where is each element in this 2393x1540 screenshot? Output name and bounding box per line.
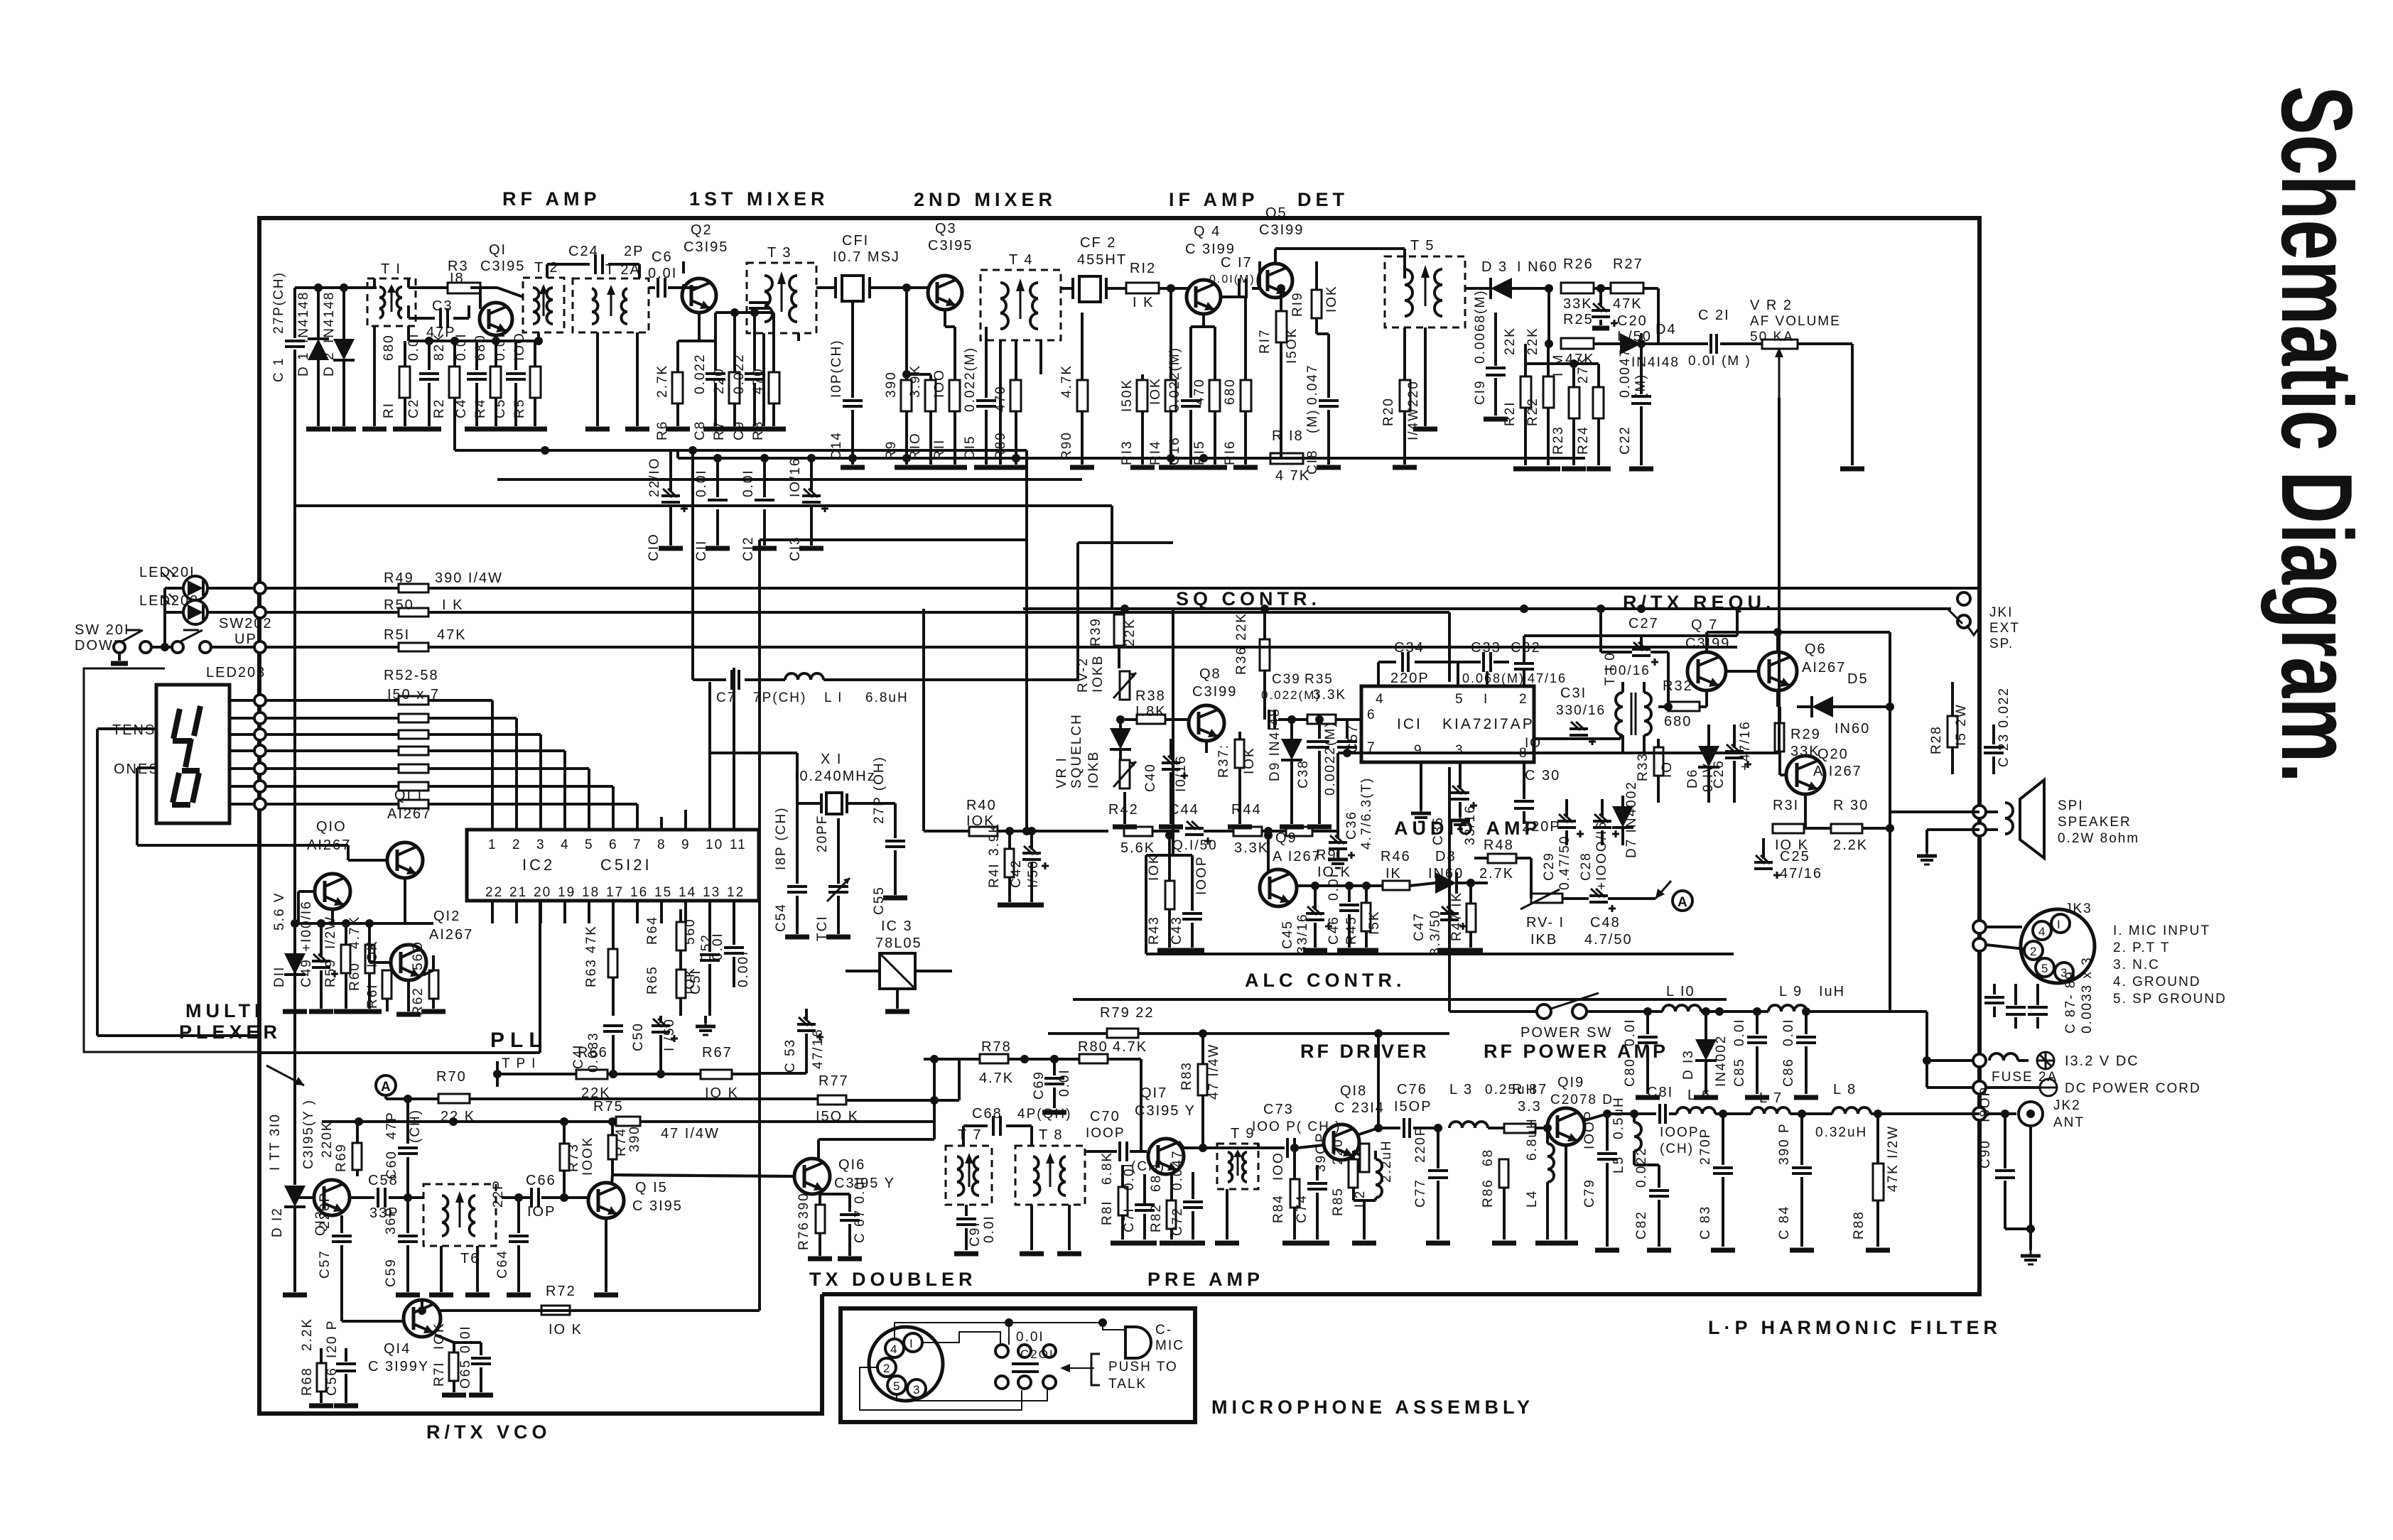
node R85 value	[1331, 1138, 1346, 1165]
svg-text:22: 22	[485, 885, 503, 900]
svg-text:4: 4	[1376, 692, 1385, 707]
diode D7 1N4002	[1612, 781, 1639, 858]
node R26 value	[1563, 296, 1643, 312]
capacitor C48 4.7/50	[1584, 889, 1655, 948]
svg-text:R44: R44	[1231, 802, 1262, 818]
svg-text:JK2: JK2	[2053, 1098, 2081, 1113]
transistor Q15 C3195	[588, 1175, 683, 1218]
resistor R87 3.3	[1504, 1082, 1547, 1133]
svg-text:6: 6	[609, 837, 618, 852]
node R41 labels	[987, 823, 1002, 888]
capacitor C69 0.01	[1042, 1055, 1066, 1112]
svg-text:MIC: MIC	[1155, 1338, 1184, 1353]
svg-text:I00/16: I00/16	[1604, 663, 1651, 678]
wire vco out	[502, 1196, 530, 1199]
svg-text:27P (OH): 27P (OH)	[872, 756, 887, 824]
node PTT arrow	[1060, 1364, 1094, 1372]
diode D10 IN60	[1110, 715, 1131, 760]
svg-text:C45: C45	[1280, 920, 1295, 949]
svg-text:47P: 47P	[426, 325, 456, 340]
capacitor C91 0.01 under T7	[954, 1205, 997, 1254]
node TP1	[493, 1056, 536, 1087]
resistor R74 390	[608, 1122, 642, 1175]
resistor R88 47K 1/2W	[1852, 1110, 1901, 1250]
crystal CF2 455HT	[1061, 235, 1127, 302]
svg-text:220: 220	[712, 367, 727, 394]
svg-text:9: 9	[681, 837, 691, 852]
svg-text:330/16: 330/16	[1556, 703, 1606, 718]
svg-text:I/50: I/50	[1026, 860, 1041, 888]
wire q16 coll2	[0, 0, 1, 1]
wire mic cap top	[0, 0, 1, 1]
wire q2 base riser	[682, 261, 685, 273]
capacitor C44 0.1/50	[1172, 821, 1233, 853]
transistor Q1 C3195	[480, 242, 525, 341]
svg-text:8: 8	[657, 837, 666, 852]
trimmer TC1 20PF	[0, 0, 1, 1]
svg-text:I8OP: I8OP	[1978, 1086, 1993, 1122]
resistor R83 47 1/4W	[1179, 1034, 1258, 1152]
resistor R65 10K	[645, 909, 698, 1016]
wire q17 emitter	[0, 0, 1, 1]
svg-text:C49: C49	[299, 958, 314, 987]
capacitor C10 22/10	[647, 450, 688, 561]
node MICROPHONE ASSEMBLY label	[1211, 1397, 1534, 1418]
inductor L4 6.8uH	[1525, 1124, 1560, 1243]
resistor R17 150K	[1258, 284, 1300, 458]
wire mic netz	[860, 1367, 1022, 1410]
svg-text:C4: C4	[454, 398, 469, 418]
svg-text:IOK: IOK	[1242, 747, 1257, 774]
svg-text:L 9: L 9	[1779, 984, 1803, 999]
svg-text:+IOOO/I6: +IOOO/I6	[1594, 820, 1609, 890]
capacitor C3 47P	[409, 298, 469, 340]
diode D11 5.6V zener	[272, 892, 307, 1012]
capacitor C59 36P(CH)	[384, 1198, 420, 1295]
transistor Q20 A1267	[1786, 756, 1825, 794]
svg-text:R38: R38	[1135, 688, 1166, 704]
capacitor C46 0.01	[0, 0, 1, 1]
capacitor C46 0.01	[1327, 872, 1361, 950]
svg-text:0.0I (M ): 0.0I (M )	[1688, 354, 1751, 369]
svg-text:AI267: AI267	[429, 927, 473, 943]
svg-text:L 7: L 7	[1759, 1090, 1783, 1106]
svg-text:R2I: R2I	[1503, 401, 1518, 426]
wire vert C1	[0, 0, 1, 1]
wire r83 column	[0, 0, 1, 1]
svg-text:I: I	[1484, 692, 1489, 707]
diode D1 1N4148	[296, 288, 330, 429]
wire r79 right	[1138, 1029, 1449, 1128]
wire sq bus	[0, 0, 1, 1]
svg-text:C47: C47	[1412, 912, 1427, 941]
svg-text:VR I: VR I	[1054, 757, 1069, 788]
node R52-58 label	[384, 668, 440, 703]
svg-text:I.8K: I.8K	[1135, 704, 1167, 720]
wire 1540 rail	[0, 0, 1, 1]
svg-text:Q I5: Q I5	[635, 1180, 668, 1195]
capacitor C27 100/16	[1628, 616, 1659, 631]
capacitor C90 180P final	[1978, 1086, 2041, 1264]
svg-text:C 84: C 84	[1777, 1205, 1792, 1240]
wire riser rv2	[0, 0, 1, 1]
svg-text:I5 2W: I5 2W	[1954, 703, 1969, 746]
resistor R4 680	[473, 334, 508, 429]
wire ptt wires	[0, 0, 1, 1]
node D10 labels	[0, 0, 1, 1]
svg-text:IOO: IOO	[512, 332, 527, 361]
svg-text:2.2K: 2.2K	[300, 1318, 315, 1351]
capacitor C22 0.0047(M)	[1618, 340, 1653, 469]
svg-text:C22: C22	[1618, 425, 1633, 455]
capacitor C11 0.01	[694, 454, 730, 561]
node C90 value	[0, 0, 1, 1]
transistor Q7 C3199	[1687, 617, 1726, 690]
svg-text:D 3: D 3	[1481, 259, 1508, 275]
wire bus y712	[295, 506, 1112, 609]
svg-text:C 53: C 53	[783, 1039, 798, 1073]
svg-text:C20: C20	[1617, 313, 1648, 329]
ic IC2 C5121	[467, 830, 759, 901]
wire Q2 emitter rail	[678, 308, 774, 341]
svg-text:0.32uH: 0.32uH	[1815, 1125, 1867, 1140]
resistor R2 82K	[432, 332, 460, 450]
capacitor C34 220P	[1378, 640, 1458, 686]
svg-text:2.2uH: 2.2uH	[1379, 1139, 1394, 1183]
node TX DOUBLER label	[809, 1269, 977, 1290]
svg-text:5: 5	[893, 1379, 901, 1393]
svg-text:47K: 47K	[437, 627, 467, 643]
svg-text:390 I/4W: 390 I/4W	[435, 570, 503, 586]
svg-text:C54: C54	[774, 903, 789, 932]
svg-text:SQ CONTR.: SQ CONTR.	[1176, 588, 1321, 609]
svg-text:C-: C-	[1155, 1323, 1172, 1338]
svg-text:R72: R72	[546, 1284, 576, 1299]
svg-text:C28: C28	[1579, 852, 1594, 881]
svg-text:PRE AMP: PRE AMP	[1147, 1269, 1264, 1290]
svg-text:47/16: 47/16	[1528, 671, 1567, 685]
svg-text:ALC CONTR.: ALC CONTR.	[1245, 970, 1405, 991]
node D13 value	[1714, 1035, 1729, 1087]
svg-text:R24: R24	[1576, 425, 1591, 455]
svg-text:220K: 220K	[320, 1121, 335, 1158]
svg-text:I8P (CH): I8P (CH)	[774, 806, 789, 870]
wire q20 emitter	[1804, 794, 1807, 828]
svg-text:C68: C68	[972, 1106, 1003, 1122]
svg-text:R35: R35	[1304, 672, 1334, 687]
resistor R38 1.8K	[1125, 688, 1188, 724]
svg-text:C35: C35	[1431, 816, 1446, 845]
resistor R40 10K	[924, 609, 1108, 836]
wire q15 emitter	[594, 1218, 618, 1295]
capacitor C9 0.022	[732, 313, 767, 440]
node TENS label	[97, 722, 260, 1036]
svg-text:220P: 220P	[1390, 671, 1430, 686]
svg-text:IN4I48: IN4I48	[1631, 355, 1680, 370]
potentiometer VR2 AF VOLUME 50KA	[1750, 298, 1864, 753]
svg-text:R77: R77	[819, 1073, 849, 1089]
svg-text:560: 560	[683, 918, 698, 945]
svg-text:DC POWER CORD: DC POWER CORD	[2065, 1081, 2201, 1096]
wire l9 to border	[1890, 1012, 1973, 1088]
svg-text:0.022: 0.022	[1634, 1146, 1649, 1188]
svg-text:R83: R83	[1179, 1061, 1194, 1090]
svg-text:I K: I K	[442, 597, 463, 613]
svg-text:I: I	[909, 1337, 914, 1350]
node Q20 labels	[1813, 747, 1862, 779]
resistor R23 1M	[1551, 354, 1586, 469]
svg-text:I3.2 V DC: I3.2 V DC	[2065, 1053, 2139, 1069]
resistor R21 22K	[1503, 327, 1538, 469]
svg-text:R4: R4	[473, 398, 488, 418]
node C50 value	[662, 1018, 677, 1051]
svg-text:Q5: Q5	[1265, 205, 1287, 221]
speaker SP1	[1973, 780, 2139, 858]
svg-text:12: 12	[727, 885, 745, 900]
svg-text:R67: R67	[702, 1045, 733, 1061]
wire pin11 riser	[733, 668, 735, 830]
svg-text:C14: C14	[829, 431, 844, 460]
svg-text:C74: C74	[1295, 1194, 1309, 1223]
crystal X1 10.240MHz	[708, 752, 895, 814]
svg-text:4.7/50: 4.7/50	[1584, 932, 1633, 948]
node L5 value	[1611, 1096, 1626, 1139]
svg-text:47P: 47P	[384, 1111, 399, 1139]
svg-text:D7 IN4002: D7 IN4002	[1624, 781, 1639, 858]
svg-text:R27: R27	[1613, 256, 1643, 272]
svg-text:C26: C26	[1712, 759, 1727, 788]
wire ic1 top plumbing	[1487, 609, 1737, 686]
node IC2 pin numbers	[485, 837, 747, 900]
svg-text:I5OK: I5OK	[1285, 327, 1300, 364]
wire removed3	[0, 0, 1, 1]
svg-text:R37:: R37:	[1216, 744, 1231, 778]
wire long riser A	[0, 0, 1, 1]
wire riser under q3	[0, 0, 1, 1]
wire removed	[0, 0, 1, 1]
svg-text:IN60: IN60	[1835, 721, 1870, 737]
svg-text:0.2W 8ohm: 0.2W 8ohm	[2058, 831, 2139, 846]
transistor Q19 C2078D	[1547, 1075, 1614, 1243]
svg-text:0.047: 0.047	[1305, 364, 1320, 405]
wire riser R39	[0, 0, 1, 1]
svg-text:470: 470	[993, 385, 1008, 412]
svg-text:R69: R69	[334, 1143, 349, 1172]
resistor R10 3.9K	[908, 364, 943, 467]
microphone C-MIC	[1125, 1323, 1184, 1358]
svg-text:R29: R29	[1790, 727, 1821, 742]
svg-text:C5I: C5I	[688, 969, 703, 994]
transistor Q5 C3199	[1258, 205, 1304, 298]
svg-text:36P: 36P	[384, 1206, 399, 1235]
svg-text:33/16: 33/16	[1295, 913, 1310, 954]
capacitor C72 0.047	[1170, 1149, 1205, 1243]
node C80 value	[1623, 1018, 1638, 1046]
wire X1 to IC2	[0, 0, 1, 1]
svg-text:IOP: IOP	[527, 1204, 556, 1220]
svg-text:7P(CH): 7P(CH)	[753, 690, 806, 705]
svg-text:A I267: A I267	[1273, 849, 1322, 864]
svg-text:680: 680	[1223, 378, 1238, 405]
svg-text:C32: C32	[1511, 640, 1541, 656]
node L4 value	[1525, 1117, 1540, 1161]
svg-text:IOO: IOO	[932, 369, 947, 398]
resistor R19 10K	[1290, 261, 1329, 334]
svg-text:R46: R46	[1381, 849, 1411, 864]
wire q18 collector	[1357, 1124, 1400, 1135]
svg-text:CIO: CIO	[647, 533, 661, 561]
svg-text:390: 390	[884, 371, 899, 398]
wire mux wiring	[298, 878, 405, 962]
capacitor C57 220P	[318, 1192, 352, 1295]
wire long vertical 1069	[758, 540, 761, 1311]
capacitor C12 0.01	[741, 454, 777, 561]
svg-text:IOOP: IOOP	[1582, 1110, 1597, 1149]
svg-text:(CH): (CH)	[1660, 1142, 1694, 1156]
resistor R46 1K	[1381, 849, 1435, 890]
svg-text:RI9: RI9	[1290, 291, 1305, 317]
node c90 final	[0, 0, 1, 1]
inductor L6	[1669, 1088, 1751, 1114]
svg-text:RI7: RI7	[1258, 328, 1273, 354]
svg-text:3.3: 3.3	[1518, 1099, 1542, 1115]
svg-text:RF AMP: RF AMP	[502, 188, 601, 210]
svg-text:R40: R40	[966, 798, 997, 813]
svg-text:R65: R65	[645, 965, 660, 994]
node arrow pll	[266, 1065, 304, 1085]
fuse FUSE 2A	[1973, 1052, 2139, 1085]
node DC POWER CORD	[1973, 1079, 2201, 1096]
svg-text:47/16: 47/16	[811, 1028, 826, 1069]
svg-text:Q 4: Q 4	[1194, 224, 1221, 239]
capacitor C76 150P	[1394, 1082, 1442, 1138]
resistor R27 47K	[1611, 256, 1658, 344]
svg-text:C82: C82	[1634, 1210, 1649, 1240]
wire led stems	[163, 588, 166, 625]
capacitor C78 column	[0, 0, 1, 1]
transistor Q4 C3199	[1179, 224, 1236, 327]
svg-text:2. P.T T: 2. P.T T	[2113, 940, 2170, 955]
svg-text:QI I: QI I	[394, 788, 423, 803]
wire a arrow vco	[0, 0, 1, 1]
svg-text:C7: C7	[716, 690, 736, 705]
svg-text:R22: R22	[1525, 397, 1540, 426]
svg-text:390 P: 390 P	[1777, 1122, 1792, 1165]
wire riser sq	[0, 0, 1, 1]
svg-text:680: 680	[382, 334, 396, 361]
svg-text:QI7: QI7	[1140, 1085, 1167, 1101]
svg-text:270P: 270P	[1698, 1128, 1713, 1165]
capacitor C78 330P	[0, 0, 1, 1]
svg-text:5: 5	[1455, 692, 1464, 707]
svg-text:C64: C64	[495, 1249, 510, 1279]
svg-text:0.0I: 0.0I	[1781, 1018, 1796, 1046]
svg-text:0.47/50: 0.47/50	[1557, 835, 1572, 890]
svg-text:C72: C72	[1170, 1207, 1185, 1236]
svg-text:2: 2	[883, 1362, 891, 1375]
svg-text:C48: C48	[1590, 915, 1621, 931]
transformer T2	[523, 260, 564, 345]
wire c25 tie	[0, 0, 1, 1]
resistor R33 10	[1636, 739, 1675, 803]
resistor R14 10K	[1148, 284, 1183, 467]
svg-text:JKI: JKI	[1989, 605, 2013, 620]
svg-text:C90: C90	[1978, 1139, 1993, 1168]
svg-text:QI6: QI6	[838, 1157, 865, 1173]
svg-text:CFI: CFI	[842, 233, 869, 249]
wire pll right	[0, 0, 1, 1]
wire r78 47k	[924, 1039, 1014, 1086]
svg-text:20: 20	[534, 885, 551, 900]
wire ic1 out	[1534, 735, 1621, 739]
wire sw201 link	[0, 0, 1, 1]
connector mic DIN	[869, 1327, 943, 1401]
transformer T1	[362, 261, 416, 429]
wire r75 bus	[322, 1059, 934, 1142]
resistor R5 100	[512, 332, 547, 429]
svg-text:C43: C43	[1170, 916, 1184, 945]
transistor Q17 C3195Y	[1135, 1085, 1196, 1174]
capacitor C53 47/16	[760, 1009, 826, 1073]
svg-text:0.0033 x 3: 0.0033 x 3	[2080, 956, 2095, 1034]
wire vert 1760s	[0, 0, 1, 1]
capacitor C26 47/16	[1712, 720, 1753, 803]
capacitor C77 220P	[0, 0, 1, 1]
svg-text:C56: C56	[325, 1367, 340, 1396]
wire q18 base wire	[0, 0, 1, 1]
resistor R44 3.3K	[1231, 802, 1286, 856]
svg-text:4: 4	[561, 837, 570, 852]
wire vco gnd row	[0, 0, 1, 1]
wire c41 c50 drops	[609, 1035, 661, 1078]
wire PLL corner	[0, 0, 1, 1]
svg-text:R43: R43	[1147, 916, 1162, 945]
resistor R48 2.7K	[1474, 837, 1531, 899]
svg-text:C66: C66	[526, 1173, 556, 1188]
wire 2660 top	[0, 0, 1, 1]
led LED201	[139, 565, 260, 600]
wire r70 bus	[386, 1095, 497, 1103]
wire d5 wire	[1833, 703, 1894, 711]
transformer T8	[1015, 1127, 1085, 1205]
svg-text:L 6: L 6	[1687, 1088, 1711, 1103]
node RF AMP label	[502, 188, 601, 210]
transistor Q8 C3199	[1189, 666, 1237, 741]
svg-text:R86: R86	[1481, 1178, 1496, 1208]
crystal CF1 10.7MSJ	[816, 233, 900, 308]
svg-text:C80: C80	[1623, 1058, 1638, 1087]
wire q16 collector top	[819, 1122, 934, 1159]
resistor R6 2.7K	[655, 341, 690, 440]
svg-text:AI267: AI267	[387, 806, 431, 822]
svg-text:AF VOLUME: AF VOLUME	[1750, 314, 1841, 329]
node C41 value	[0, 0, 1, 1]
wire vco rail2	[0, 0, 1, 1]
svg-text:4.7K: 4.7K	[979, 1070, 1014, 1086]
resistor R3 18	[448, 259, 480, 293]
svg-text:33K: 33K	[1563, 296, 1593, 312]
capacitor C29 0.47/50	[1542, 799, 1584, 890]
transformer T5	[1385, 238, 1465, 429]
wire ic1 pin2 riser	[1640, 636, 1643, 648]
node A circle vco	[376, 1075, 396, 1095]
capacitor C14 10P(CH)	[829, 308, 865, 467]
svg-text:C76: C76	[1397, 1082, 1427, 1097]
svg-text:C6: C6	[652, 249, 673, 265]
capacitor C71 0.01	[1122, 1162, 1157, 1243]
svg-text:I/2W: I/2W	[323, 916, 338, 949]
led LED202	[139, 593, 260, 624]
